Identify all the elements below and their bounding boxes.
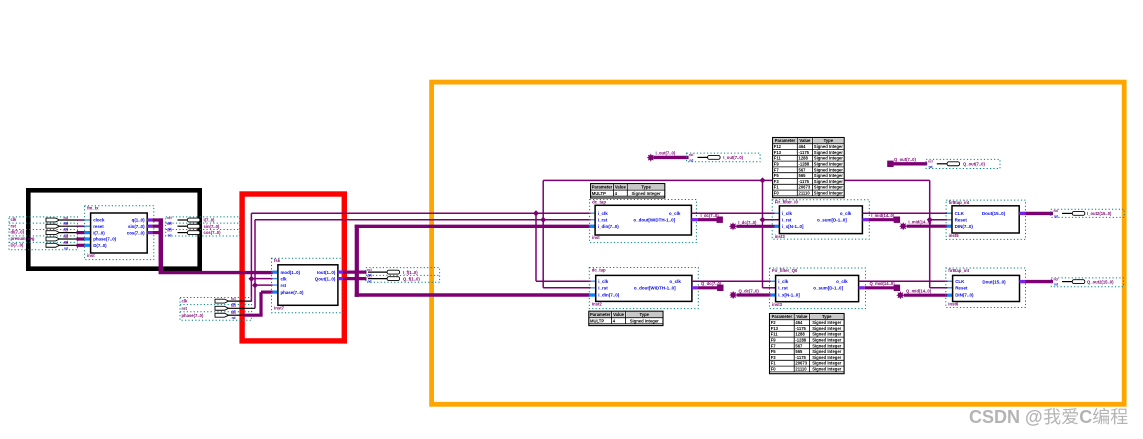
svg-text:I_mid(14..0): I_mid(14..0)	[871, 213, 895, 218]
svg-text:-1175: -1175	[795, 326, 806, 331]
module Fir_filter_I0 row1	[772, 200, 869, 239]
output pin group of fm_tx (I sin cos)	[166, 217, 240, 236]
bus from phase pin up to fsk phase port	[244, 314, 263, 317]
svg-text:Reset: Reset	[955, 286, 968, 291]
svg-text:Q_f(1..0): Q_f(1..0)	[403, 276, 420, 281]
output pin group I_f Q_f	[366, 268, 440, 283]
svg-text:D(7..0): D(7..0)	[93, 243, 107, 248]
svg-text:1288: 1288	[799, 156, 809, 161]
svg-text:cos(7..0): cos(7..0)	[204, 230, 222, 235]
dangling wire Q_out(7..0)	[887, 161, 893, 167]
wire rst vertical x762.5 to fir filters	[762, 180, 764, 287]
svg-text:o_clk: o_clk	[836, 279, 848, 284]
module fsk U2	[272, 258, 344, 312]
bus taps from fm_tx outputs to vertical bus	[147, 218, 152, 221]
svg-text:F7: F7	[771, 343, 777, 348]
svg-text:-1288: -1288	[799, 162, 810, 167]
svg-text:Signed Integer: Signed Integer	[812, 349, 841, 354]
wire clk branch vertical x536 to row2	[535, 213, 537, 281]
junction rst into fsk	[252, 282, 258, 288]
dangling bus into Fir_filter_Q0 i_x	[729, 291, 737, 299]
svg-text:20673: 20673	[799, 185, 811, 190]
svg-text:i_clk: i_clk	[598, 279, 609, 284]
dangling bus into Fir_filter_I0 i_x	[729, 222, 737, 230]
svg-text:ncl: ncl	[1054, 209, 1059, 213]
svg-text:nd: nd	[232, 316, 236, 320]
module Fir_filter_Q0 row2	[770, 268, 866, 309]
svg-text:i_rst: i_rst	[598, 217, 608, 222]
output pin group Q_out	[926, 159, 1000, 168]
wire clk distribution horizontal y213	[251, 212, 590, 214]
svg-text:ncl: ncl	[367, 268, 372, 272]
svg-text:q(1..0): q(1..0)	[132, 218, 145, 223]
svg-text:clk: clk	[11, 217, 17, 222]
svg-text:o_sum[D-1..0]: o_sum[D-1..0]	[817, 217, 847, 222]
junction clk into fsk	[248, 276, 254, 282]
parameter table of dc_tap1	[591, 184, 665, 198]
svg-text:reset: reset	[93, 224, 104, 229]
junction clk x536	[533, 210, 539, 216]
svg-text:F3: F3	[774, 179, 780, 184]
svg-text:i_rst: i_rst	[598, 286, 608, 291]
wire clk row2 horizontal to dc_tap2	[536, 280, 591, 282]
svg-text:-1175: -1175	[799, 179, 810, 184]
svg-text:sin(7..0): sin(7..0)	[204, 224, 220, 229]
svg-text:F1: F1	[771, 361, 777, 366]
wire rst row2 horizontal to dc_tap2	[543, 287, 591, 289]
svg-text:Type: Type	[641, 185, 651, 190]
svg-text:inst7: inst7	[274, 306, 285, 311]
svg-text:567: 567	[795, 343, 803, 348]
dangling bus into fir_int2 DIN	[896, 291, 904, 299]
svg-text:F1: F1	[774, 185, 780, 190]
svg-text:Signed Integer: Signed Integer	[814, 167, 843, 172]
svg-text:F5: F5	[774, 173, 780, 178]
svg-text:nd: nd	[64, 246, 68, 250]
svg-text:Q_dc(7..0): Q_dc(7..0)	[701, 281, 722, 286]
svg-text:ncl: ncl	[64, 235, 69, 239]
vertical purple bus right of fm_tx	[159, 218, 164, 272]
module fir_int row2	[946, 268, 1026, 308]
svg-text:clk: clk	[281, 276, 288, 281]
svg-text:cos(7..0): cos(7..0)	[127, 230, 145, 235]
svg-text:i_din(7..0): i_din(7..0)	[598, 293, 620, 298]
svg-text:ncl: ncl	[928, 160, 933, 164]
svg-text:F13: F13	[774, 150, 782, 155]
frame: red highlight box (middle)	[242, 194, 344, 341]
svg-text:Fir_filter_Q0: Fir_filter_Q0	[772, 268, 798, 273]
svg-text:-1175: -1175	[799, 150, 810, 155]
dangling bus into fir_int1 DIN	[899, 222, 907, 230]
svg-text:Signed Integer: Signed Integer	[814, 162, 843, 167]
svg-text:di(7..0): di(7..0)	[11, 230, 25, 235]
svg-text:o_sum[D-1..0]: o_sum[D-1..0]	[813, 286, 843, 291]
svg-text:nd: nd	[1054, 283, 1058, 287]
svg-text:565: 565	[799, 173, 807, 178]
svg-text:inst6: inst6	[948, 302, 959, 307]
vertical bus I/Q to FIR rows	[355, 225, 359, 297]
svg-text:Signed Integer: Signed Integer	[812, 320, 841, 325]
module dc_tap row1	[590, 200, 697, 243]
svg-text:Signed Integer: Signed Integer	[814, 179, 843, 184]
svg-text:Q_mid(14..0): Q_mid(14..0)	[906, 289, 932, 294]
cyan stub fir_int2 CLK	[947, 280, 953, 282]
svg-text:Signed Integer: Signed Integer	[814, 156, 843, 161]
svg-text:nd: nd	[929, 165, 933, 169]
wire fir_int1 Dout output bus	[1019, 212, 1025, 215]
svg-text:fm_tx: fm_tx	[87, 206, 99, 211]
cyan stub dc_tap1 i_din	[590, 225, 596, 228]
svg-text:464: 464	[799, 144, 807, 149]
svg-text:fir8tap_int: fir8tap_int	[949, 200, 970, 205]
wire dc_tap2 o_dout dangling bus	[692, 286, 698, 289]
module dc_tap row2	[589, 268, 698, 309]
svg-text:ncl: ncl	[167, 228, 172, 232]
svg-text:rst: rst	[182, 306, 188, 311]
svg-text:F13: F13	[771, 326, 779, 331]
junction rst top x762.5	[760, 177, 766, 183]
svg-text:inst2: inst2	[592, 302, 603, 307]
svg-text:21110: 21110	[795, 367, 807, 372]
svg-text:F11: F11	[771, 332, 779, 337]
svg-text:nd: nd	[368, 280, 372, 284]
module fm_tx U1	[85, 206, 154, 260]
svg-text:Signed Integer: Signed Integer	[812, 367, 841, 372]
svg-text:Q_mid(14..0): Q_mid(14..0)	[870, 281, 896, 286]
svg-text:Signed Integer: Signed Integer	[814, 150, 843, 155]
svg-text:DIN(7..0): DIN(7..0)	[955, 293, 974, 298]
svg-text:F9: F9	[771, 338, 777, 343]
svg-text:ncl: ncl	[64, 216, 69, 220]
wire dc_tap1 o_clk to Fir_filter_I0 i_clk	[691, 212, 779, 214]
svg-text:F11: F11	[774, 156, 782, 161]
wire rst top distribution horizontal y180.4	[543, 179, 930, 181]
svg-text:Iout(1..0): Iout(1..0)	[317, 270, 336, 275]
svg-text:F2: F2	[771, 320, 777, 325]
wire rst branch vertical x543 up and down	[542, 180, 544, 287]
svg-text:nd: nd	[1054, 214, 1058, 218]
svg-text:o_dout[WIDTH-1..0]: o_dout[WIDTH-1..0]	[633, 217, 675, 222]
svg-text:mod(1..0): mod(1..0)	[281, 270, 301, 275]
wire rst into fsk rst port	[255, 284, 273, 286]
svg-text:I_dc(7..0): I_dc(7..0)	[701, 213, 720, 218]
svg-text:inst3: inst3	[772, 302, 783, 307]
svg-text:F3: F3	[771, 355, 777, 360]
wire rst to fir_int1 Reset	[930, 219, 953, 221]
svg-text:i_clk: i_clk	[782, 211, 793, 216]
wire clk into fsk clk port	[251, 278, 272, 280]
svg-text:sin(7..0): sin(7..0)	[128, 224, 145, 229]
svg-text:i_x[N-1..0]: i_x[N-1..0]	[778, 293, 800, 298]
svg-text:dc_tap: dc_tap	[592, 199, 606, 204]
svg-text:inst3: inst3	[775, 234, 786, 239]
cyan stub fir_int2 Reset	[947, 287, 953, 289]
svg-text:inst5: inst5	[949, 233, 960, 238]
svg-text:Type: Type	[640, 312, 650, 317]
svg-text:I(7..0): I(7..0)	[204, 218, 216, 223]
svg-text:inst: inst	[592, 235, 600, 240]
svg-text:-1175: -1175	[795, 355, 806, 360]
frame: orange highlight box (right)	[432, 82, 1125, 404]
svg-text:1288: 1288	[795, 332, 805, 337]
svg-text:I_f(1..0): I_f(1..0)	[403, 270, 418, 275]
svg-text:Signed Integer: Signed Integer	[814, 173, 843, 178]
svg-text:i_clk: i_clk	[778, 279, 789, 284]
svg-text:CSDN @: CSDN @	[969, 407, 1043, 427]
svg-text:i_x[N-1..0]: i_x[N-1..0]	[782, 224, 804, 229]
svg-text:F12: F12	[774, 144, 782, 149]
svg-text:ncl: ncl	[167, 216, 172, 220]
svg-text:20673: 20673	[795, 361, 807, 366]
svg-text:Signed Integer: Signed Integer	[812, 355, 841, 360]
output pin group I_out2	[1051, 209, 1124, 217]
wire dc_tap1 o_dout dangling bus	[691, 218, 697, 221]
svg-text:nd: nd	[168, 234, 172, 238]
svg-text:rst: rst	[281, 283, 287, 288]
svg-text:Signed Integer: Signed Integer	[812, 361, 841, 366]
wire dc_tap2 o_clk to Fir_filter_Q0 i_clk	[692, 280, 776, 282]
parameter table of Fir_filter_I0	[773, 138, 845, 198]
svg-text:ncl: ncl	[1054, 277, 1059, 281]
svg-text:Signed Integer: Signed Integer	[814, 191, 843, 196]
wire fir_int2 Dout output bus	[1020, 280, 1026, 283]
svg-text:Signed Integer: Signed Integer	[812, 332, 841, 337]
svg-text:i_rst: i_rst	[778, 286, 788, 291]
wire Fir_I0 o_sum dangling bus	[862, 218, 868, 221]
svg-text:Type: Type	[822, 314, 832, 319]
svg-text:Parameter: Parameter	[772, 314, 793, 319]
svg-text:Dout(15..0): Dout(15..0)	[982, 280, 1006, 285]
svg-text:clock: clock	[93, 218, 105, 223]
svg-text:F0: F0	[771, 367, 777, 372]
svg-text:o_dout[WIDTH-1..0]: o_dout[WIDTH-1..0]	[634, 286, 676, 291]
svg-text:F7: F7	[774, 167, 780, 172]
svg-text:o_clk: o_clk	[669, 279, 681, 284]
svg-text:567: 567	[799, 167, 807, 172]
cyan stub dc_tap2 i_din	[590, 293, 597, 296]
wire fsk Iout bus	[338, 271, 343, 274]
wire clk vertical drop to fsk and pins x251	[250, 213, 252, 301]
wire rst to fir_int2 Reset	[930, 287, 953, 289]
svg-text:Signed Integer: Signed Integer	[812, 343, 841, 348]
cyan stub into fsk mod port	[273, 271, 279, 274]
svg-text:Signed Integer: Signed Integer	[814, 144, 843, 149]
junction Qout	[354, 276, 360, 282]
svg-text:ncl: ncl	[64, 222, 69, 226]
svg-text:MULTP: MULTP	[592, 191, 606, 196]
svg-text:Fir_filter_I0: Fir_filter_I0	[775, 200, 799, 205]
dangling wire I_out(7..0)	[647, 154, 655, 162]
svg-text:D(7..0): D(7..0)	[11, 242, 24, 247]
svg-text:fir8tap_int: fir8tap_int	[948, 268, 969, 273]
svg-text:i_clk: i_clk	[598, 211, 609, 216]
svg-text:Dout(15..0): Dout(15..0)	[982, 211, 1006, 216]
svg-text:i_din(7..0): i_din(7..0)	[598, 224, 620, 229]
junction Iout	[354, 269, 360, 275]
svg-text:I_out(7..0): I_out(7..0)	[723, 155, 743, 160]
wire rst to Fir_filter_I0 i_rst	[763, 219, 780, 221]
wire fsk Qout bus	[338, 277, 343, 280]
svg-text:F5: F5	[771, 349, 777, 354]
svg-text:fsk: fsk	[274, 258, 281, 263]
svg-text:I_out(7..0): I_out(7..0)	[656, 150, 676, 155]
cyan stub FirQ i_clk	[771, 280, 777, 282]
wire rst vertical x255 down to pins	[254, 220, 256, 309]
svg-text:C: C	[1079, 407, 1092, 427]
output pin group Q_out2	[1051, 278, 1123, 287]
bus Q to dc_tap2 i_din	[355, 293, 590, 296]
svg-text:I_out2(15..0): I_out2(15..0)	[1087, 211, 1112, 216]
wire Fir_Q0 o_clk to fir_int2 CLK	[859, 280, 953, 282]
parameter table of Fir_filter_Q0	[770, 314, 845, 374]
svg-text:inst: inst	[87, 253, 95, 258]
svg-text:Signed Integer: Signed Integer	[812, 338, 841, 343]
wire Fir_Q0 o_sum dangling bus	[859, 286, 865, 289]
svg-text:clk: clk	[182, 299, 188, 304]
svg-text:ncl: ncl	[231, 311, 236, 315]
svg-text:ncl: ncl	[689, 153, 694, 157]
svg-text:CLK: CLK	[955, 211, 965, 216]
cyan stub fir_int1 Reset	[947, 219, 953, 221]
svg-text:Parameter: Parameter	[775, 138, 796, 143]
svg-text:Q_out(7..0): Q_out(7..0)	[894, 157, 916, 162]
horizontal purple bus under black box to fsk mod port	[159, 271, 273, 274]
svg-text:rst: rst	[11, 223, 17, 228]
output pin group I_out	[687, 153, 761, 162]
thin cyan stubs dc_tap1 clk rst	[591, 212, 596, 214]
svg-text:presum_reg: presum_reg	[11, 236, 35, 241]
svg-text:ncl: ncl	[367, 274, 372, 278]
svg-text:ncl: ncl	[64, 228, 69, 232]
svg-text:nd: nd	[689, 158, 693, 162]
svg-text:Value: Value	[615, 185, 627, 190]
svg-text:phase(7..0): phase(7..0)	[281, 290, 304, 295]
parameter table of dc_tap2	[589, 311, 663, 325]
module fir_int row1	[946, 200, 1025, 239]
svg-text:phase(7..0): phase(7..0)	[93, 237, 116, 242]
svg-text:I_dc(7..0): I_dc(7..0)	[738, 220, 757, 225]
svg-text:565: 565	[795, 349, 803, 354]
svg-text:o_clk: o_clk	[669, 211, 681, 216]
input pin group of fsk (clk rst phase)	[180, 298, 252, 321]
svg-text:F9: F9	[774, 162, 780, 167]
wire rst to Fir_filter_Q0 i_rst	[763, 287, 777, 289]
svg-text:F0: F0	[774, 191, 780, 196]
svg-text:Value: Value	[799, 138, 811, 143]
svg-text:Value: Value	[796, 314, 808, 319]
wire rst vertical x929.7 to fir_int blocks	[929, 180, 931, 287]
cyan stub Fir i_clk	[775, 212, 781, 214]
svg-text:i(7..0): i(7..0)	[93, 230, 105, 235]
svg-text:Qout(1..0): Qout(1..0)	[315, 276, 336, 281]
svg-text:Value: Value	[613, 312, 625, 317]
svg-text:-1288: -1288	[795, 338, 806, 343]
svg-text:Reset: Reset	[955, 217, 968, 222]
svg-text:MULTP: MULTP	[590, 318, 604, 323]
svg-text:Q_dc(7..0): Q_dc(7..0)	[739, 289, 760, 294]
wire Fir_I0 o_clk to fir_int1 CLK	[862, 212, 952, 214]
svg-text:DIN(7..0): DIN(7..0)	[955, 224, 974, 229]
svg-text:i_rst: i_rst	[782, 217, 792, 222]
svg-text:Signed Integer: Signed Integer	[814, 185, 843, 190]
thin cyan stubs dc_tap2 clk rst	[591, 280, 597, 282]
bus I to dc_tap1 i_din	[355, 225, 590, 228]
svg-text:464: 464	[795, 320, 803, 325]
svg-text:Signed Integer: Signed Integer	[630, 318, 659, 323]
junction rst row1 x762.5	[760, 217, 766, 223]
svg-text:Parameter: Parameter	[590, 312, 611, 317]
svg-text:Signed Integer: Signed Integer	[632, 191, 661, 196]
svg-text:I_mid(14..0): I_mid(14..0)	[908, 220, 932, 225]
input pin group of module fm (clk rst di presum D)	[9, 217, 78, 250]
svg-text:phase(7..0): phase(7..0)	[182, 313, 204, 318]
svg-text:Signed Integer: Signed Integer	[812, 326, 841, 331]
junction rst row1 x929.7	[927, 217, 933, 223]
svg-text:dc_tap: dc_tap	[592, 267, 606, 272]
frame: black highlight box (left)	[28, 190, 199, 268]
wire rst distribution horizontal y219.7	[255, 219, 591, 221]
svg-text:ncl: ncl	[64, 241, 69, 245]
svg-text:o_clk: o_clk	[840, 211, 852, 216]
svg-text:Q_out(7..0): Q_out(7..0)	[963, 162, 985, 167]
svg-text:21110: 21110	[799, 191, 811, 196]
cyan stub fir_int1 CLK	[947, 212, 953, 214]
svg-text:ncl: ncl	[231, 297, 236, 301]
svg-text:Parameter: Parameter	[592, 185, 613, 190]
svg-text:ncl: ncl	[231, 304, 236, 308]
junction rst x543	[540, 217, 546, 223]
svg-text:ncl: ncl	[167, 222, 172, 226]
svg-text:CLK: CLK	[955, 279, 965, 284]
svg-text:Type: Type	[824, 138, 834, 143]
svg-text:Q_out2(15..0): Q_out2(15..0)	[1087, 279, 1114, 284]
